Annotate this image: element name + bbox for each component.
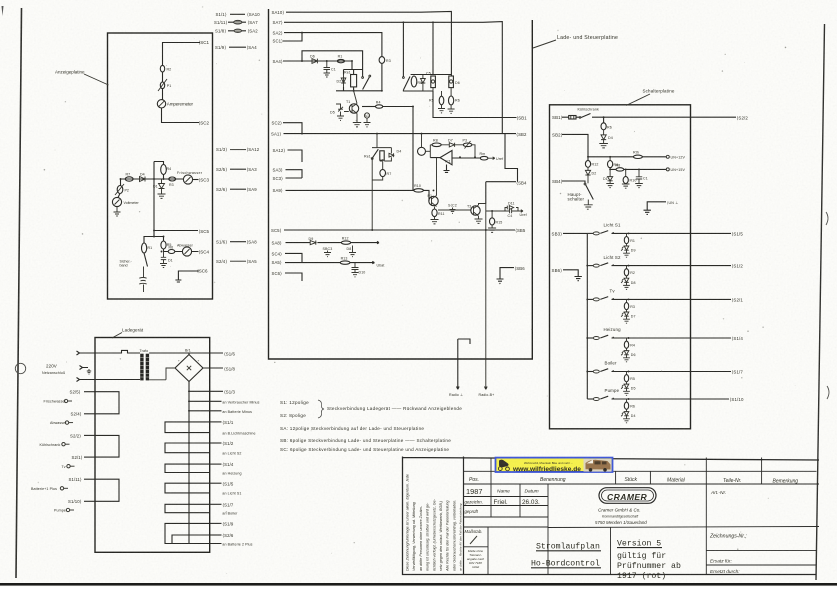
resistor R1 [142, 243, 147, 253]
resistor R4 [161, 165, 167, 175]
Anzeigeplatine board outline [108, 33, 213, 299]
ground C1s [635, 184, 643, 188]
resistor Rth [633, 155, 642, 158]
mid line under cramer [548, 527, 819, 528]
relay contact K3 [372, 149, 379, 159]
resistor R12s [585, 161, 590, 168]
relay contact K2 [403, 77, 405, 79]
switch Sicherungsband [144, 253, 148, 267]
wire op-amp input row [426, 150, 431, 152]
wire staple S1/9 S2/6 [165, 523, 210, 543]
vertical rail to SC5 [153, 162, 155, 237]
wire R2 to P1 [162, 72, 164, 82]
LED D4 [624, 409, 629, 419]
resistor R15 [490, 218, 495, 225]
battery symbol [139, 267, 146, 293]
wire meter to SC3 [193, 179, 199, 181]
wire staple S1/7 pair [165, 504, 210, 512]
wire bridge bottom to S1/3 [189, 382, 223, 392]
wire SC3 stub [286, 177, 303, 179]
resistor R8s [616, 168, 624, 171]
resistor R5 [161, 241, 166, 249]
switch Licht S2 [587, 255, 743, 290]
diode D7 [449, 143, 454, 147]
measuring point P [418, 147, 426, 155]
ground Hauptschalter [584, 200, 593, 210]
LED D6 [624, 348, 629, 358]
wire D3 stem and ground [158, 179, 166, 198]
wire Re2 up to SA1 row [372, 134, 391, 161]
wire mains bottom [98, 379, 141, 381]
diode D9b [421, 75, 426, 92]
wire SC2 to SA1 [283, 123, 302, 134]
wire stub S1/1 [210, 421, 222, 423]
LED D9 [624, 244, 629, 254]
banner camper van [584, 459, 612, 472]
banner wilfriedlieske [496, 458, 613, 473]
wire feedback row [430, 145, 475, 158]
Lade- und Steuerplatine board outline [269, 9, 533, 359]
wire R12 branch down [587, 157, 589, 161]
wire T1 collector to R4 [362, 106, 376, 108]
massstab slash [470, 536, 477, 544]
relay Re2 coil [380, 151, 384, 160]
Schalterplatine board outline [550, 105, 691, 429]
fuse F [234, 29, 242, 33]
resistor R12 [341, 241, 350, 244]
wire SA3 L-stub [286, 170, 303, 178]
top-left registration tick [2, 6, 4, 16]
potentiometer P2 [117, 186, 123, 194]
wire SC5 long row to SB5 [284, 229, 515, 231]
copyright column box [463, 457, 465, 575]
voltmeter [112, 197, 121, 206]
resistor R3 [626, 299, 628, 302]
wire inner left loop 1 [95, 392, 119, 414]
column masse box right [487, 527, 489, 575]
potentiometer P3 [463, 143, 472, 147]
column bemerkung [761, 458, 763, 485]
ground Licht S1 [623, 253, 630, 257]
wire to Uref arrow [488, 157, 495, 160]
ground R6a [438, 105, 445, 113]
leader line [533, 40, 556, 48]
diode D3 [159, 184, 165, 189]
wire SC5 row [154, 230, 198, 232]
wire SA10 top rail [286, 11, 451, 76]
resistor R6s [601, 123, 606, 130]
diode D4m [389, 153, 394, 157]
resistor R4 [626, 338, 628, 341]
resistor R11 [432, 209, 437, 217]
resistor R5 [626, 372, 628, 375]
wire P1 to T3 base [438, 209, 471, 211]
resistor R9 [480, 156, 488, 160]
relay contact K1 [362, 77, 364, 79]
resistor R8 [432, 143, 441, 147]
diode D11 [505, 206, 518, 211]
ground T1 emitter [353, 118, 361, 127]
potentiometer P1 [160, 82, 164, 89]
wire bridge top vertex [188, 353, 190, 355]
wire branch Batterie 2 Plus [189, 543, 222, 545]
header texts [469, 477, 798, 485]
wire bridge right to S1/8 [203, 367, 223, 369]
diode D2 [341, 75, 346, 88]
rotated copyright text [406, 474, 463, 572]
switch Pumpe [587, 388, 744, 423]
resistor R5 [411, 76, 417, 87]
resistor R1 [337, 59, 344, 62]
wire staple S1/4 pair [165, 464, 210, 472]
diode D2s [585, 167, 590, 183]
ground TV [623, 319, 630, 323]
wire SA9 row to P1 [286, 190, 430, 201]
wire branch Batterie Minus [189, 410, 222, 412]
diode D6 [312, 59, 317, 64]
underline Ho-Bordcontrol [531, 567, 601, 569]
wire SA7 rail [284, 22, 502, 134]
resistor R6 [626, 399, 628, 402]
header top strip line [464, 470, 817, 472]
wire R4 down [163, 175, 165, 180]
transistor P1 [429, 196, 438, 205]
ground A1 [364, 118, 371, 127]
row line gezeichnet [464, 505, 549, 507]
LED D5 [624, 382, 629, 392]
resistor R7 [380, 169, 386, 176]
column version [610, 527, 612, 575]
switch S-k [581, 114, 591, 118]
wire inner left loop 3 [95, 479, 119, 501]
Frischwasser meter [183, 175, 192, 184]
wire SB1 feed [433, 91, 517, 118]
diode D6b [449, 76, 454, 88]
wire P1 collector up to op-amp [436, 158, 438, 196]
bridge rectifier Br1 [175, 349, 203, 382]
wire rail bottom split [144, 237, 164, 244]
wire SB2 to main vertical [562, 134, 588, 156]
wire to SC6 with ground [175, 271, 199, 282]
switch bus vertical [586, 233, 588, 399]
wire mains top with jog [98, 350, 141, 353]
plug pin PE [80, 366, 89, 370]
ground Licht S2 [623, 285, 630, 289]
diode D1 with ground [160, 252, 167, 268]
column name-block right [547, 484, 549, 575]
capacitor C4 [505, 209, 518, 213]
wire P2 to voltmeter [118, 194, 120, 198]
diode D5 with ground [336, 104, 349, 120]
node UN+12V [666, 155, 669, 158]
wire staple S1/5 pair [165, 483, 210, 493]
wire Re2 vertical to SC5 row [372, 159, 383, 230]
Ladegeraet board outline [95, 338, 210, 553]
wire R4 to vertical [382, 107, 413, 191]
node UN ground stub [644, 202, 667, 215]
row line masse box [464, 546, 489, 548]
amperemeter [157, 100, 165, 108]
transformer winding secondary [146, 354, 149, 381]
resistor R3 [379, 57, 385, 64]
resistor R6a [439, 96, 444, 105]
version block typewriter [617, 539, 681, 582]
ground Pumpe [623, 419, 630, 423]
wire junction to P2 [120, 179, 122, 186]
node UN+15V [666, 168, 669, 171]
wire to Uref2 [518, 210, 523, 213]
wire SB4 row [562, 181, 585, 184]
wire SC4 L-stub [285, 253, 302, 262]
header bottom line [464, 483, 820, 485]
switch Hauptschalter [584, 183, 586, 185]
row line name [464, 496, 549, 498]
diode D9 [310, 241, 316, 245]
leader line [626, 94, 650, 106]
ground R11 [431, 207, 439, 224]
fuse Kuehlschrank [569, 116, 576, 120]
LED D7 [624, 310, 629, 320]
wire meter to SC4 [175, 251, 199, 253]
ground plug PE [87, 369, 91, 374]
switch Licht S1 [587, 223, 743, 258]
underline Version 5 [617, 547, 662, 549]
diode D4s [601, 130, 606, 144]
switch TV [587, 289, 743, 324]
left punch hole [15, 363, 25, 373]
wire relay cluster links [336, 61, 382, 91]
capacitor C1s [636, 169, 642, 183]
wire R3 down [381, 63, 383, 90]
column material [649, 471, 651, 484]
ground D4s [599, 144, 608, 148]
wire stub S1/2 [210, 442, 222, 444]
capacitor C1 [324, 61, 331, 77]
wire UN+12V row [588, 156, 666, 158]
ground D1s [606, 184, 614, 188]
row line ersetzt durch [706, 564, 816, 566]
ground R15 [488, 211, 496, 232]
wire SA4 row [283, 60, 352, 62]
wire SB3 row [563, 232, 587, 234]
fuse F [234, 20, 242, 24]
wire rail top to R4 [154, 162, 164, 165]
masse ohne toleranz box text [467, 549, 485, 569]
wire stub S2/6 [210, 534, 222, 536]
ground Boiler [623, 391, 630, 395]
wire P1 to amperemeter [162, 89, 164, 100]
column datum [519, 484, 521, 517]
resistor R4 [376, 105, 383, 108]
sheet left border [16, 8, 22, 578]
wire minus bus vertical [188, 391, 190, 544]
resistor R6b [449, 96, 454, 105]
resistor R10 [414, 189, 424, 192]
wire SB6 with ground [497, 268, 515, 284]
resistor R3 [169, 177, 176, 181]
diode D4 [140, 177, 146, 182]
diode D1s [608, 169, 613, 183]
plug pin N [77, 378, 98, 382]
transistor T3 [471, 206, 480, 215]
column teile-nr [705, 458, 707, 575]
leader line to Anzeigeplatine [84, 74, 109, 85]
resistor R2 [160, 65, 164, 72]
resistor R13 [340, 261, 350, 264]
wire stub S1/5 [210, 482, 222, 484]
title block outer frame [403, 457, 820, 575]
resistor R9s branch [609, 157, 611, 161]
wire stub S1/9 [210, 522, 222, 524]
switch Heizung [587, 327, 743, 362]
transformer winding primary [140, 354, 143, 381]
wire amperemeter to SC2 [162, 108, 200, 123]
wire SA1 long row to SB2 [284, 133, 517, 135]
wire SA7 branch to C5 [432, 22, 434, 75]
wire SB1 row [562, 116, 736, 118]
column pos [490, 458, 492, 517]
wire cluster3 links [433, 88, 451, 97]
wire SA7 branch down to K2 [403, 22, 432, 91]
wire bridge left hook [149, 368, 175, 380]
Abwasser meter [182, 247, 191, 256]
right punch mark upper [826, 212, 828, 225]
wire SA2 to R3 [284, 33, 382, 57]
wire SA8 row [286, 241, 380, 243]
wire UN+15V row [610, 168, 666, 170]
underline Stromlaufplan [536, 550, 601, 552]
wire middle row [121, 178, 156, 180]
capacitor C5 [431, 76, 436, 88]
column stueck [615, 471, 617, 484]
node A1 [364, 113, 369, 118]
wire Radio ground drop [457, 339, 471, 389]
row line zeichnungs-nr [706, 550, 816, 552]
plug pin L [77, 351, 98, 355]
resistor R2 [626, 266, 628, 269]
wire staple S1/2 pair [165, 443, 210, 453]
wire secondary top to S1/6 [149, 352, 223, 354]
ground Heizung [623, 358, 630, 362]
LED D8 [624, 276, 629, 286]
wire inner left loop 2 [95, 435, 119, 457]
wire cluster frame [411, 75, 452, 92]
resistor R6 [168, 250, 175, 254]
wire SC1 joining SA2 [283, 33, 302, 41]
wire row to frischwasser [155, 178, 184, 180]
ground R10s [622, 184, 630, 188]
wire SA12 L-stub [288, 150, 303, 162]
ground below voltmeter [114, 207, 121, 216]
wire staple S1/1 pair [165, 422, 210, 433]
title grid lines [464, 458, 820, 575]
op-amp IC1 [440, 151, 452, 165]
wire stub S1/7 [210, 503, 222, 505]
bottom scan edge line [0, 583, 837, 586]
resistor R1 [626, 233, 628, 236]
wire stub S1/4 [210, 463, 222, 465]
wire SC1 to amperemeter branch [163, 43, 201, 66]
wire Radio B+ drop [485, 387, 488, 390]
capacitor D10 with ground [352, 263, 359, 277]
wire op-amp output [430, 158, 480, 173]
ground T3 [475, 216, 483, 223]
ground R6b [448, 105, 455, 113]
switch Boiler [587, 361, 743, 396]
legend brace [318, 400, 324, 418]
wire R6 branch [603, 117, 605, 123]
row line geprueft [464, 516, 549, 518]
transistor T1 [349, 104, 358, 113]
wire SB6 stub with ground [563, 270, 582, 281]
row line massstab [464, 526, 549, 528]
CRAMER logo [599, 488, 656, 504]
banner motorbike figure [499, 460, 509, 468]
relay Re1 coil [351, 75, 357, 87]
resistor R10s [625, 169, 627, 184]
wire R5 to R6 row [164, 249, 169, 252]
right punch mark lower [827, 386, 829, 399]
leader line [112, 333, 122, 339]
wire branch Verbraucher Minus [189, 400, 222, 402]
wire T3 collector to right [479, 204, 506, 390]
resistor R7 [125, 177, 133, 181]
wire upper loop [302, 51, 363, 70]
ground SC2b [450, 208, 456, 214]
wire SA5 row to Ubat [285, 261, 375, 263]
wire SC6 L-stub [285, 273, 302, 281]
sheet right border [816, 24, 825, 580]
wire op-amp out to SB4 [486, 134, 518, 204]
